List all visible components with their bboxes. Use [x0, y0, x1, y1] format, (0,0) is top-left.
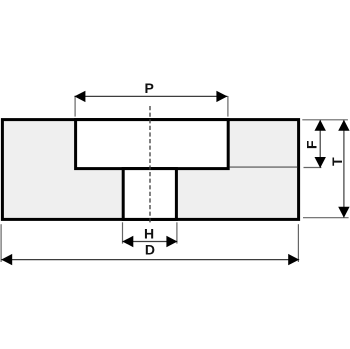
svg-text:T: T [329, 157, 345, 166]
svg-text:F: F [304, 140, 320, 149]
svg-text:P: P [145, 80, 154, 96]
svg-text:D: D [145, 241, 155, 257]
svg-text:H: H [144, 226, 154, 242]
